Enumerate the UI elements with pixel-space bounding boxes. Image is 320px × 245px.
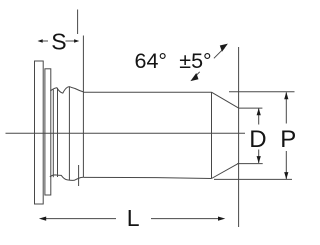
flange back plate: [45, 69, 51, 195]
top chamfer: [212, 92, 239, 108]
arrowhead L right: [218, 217, 225, 221]
dimension D line: [258, 109, 260, 164]
dimension L line: [45, 218, 220, 220]
knurl line 2: [57, 88, 59, 177]
knurl line 3: [68, 87, 70, 180]
D top extension: [239, 107, 263, 109]
dimension P line: [285, 92, 287, 179]
arrowhead P down: [284, 172, 288, 179]
arrowhead angle upper: [220, 44, 228, 52]
center line: [6, 132, 246, 134]
P top extension: [229, 91, 295, 93]
P bottom extension: [214, 178, 292, 180]
arrowhead P up: [284, 92, 288, 99]
body top line: [83, 91, 211, 93]
knurl line 1: [52, 90, 54, 178]
svg-text:L: L: [127, 205, 140, 231]
S extension line: [77, 10, 79, 35]
arrowhead L left: [39, 217, 46, 221]
svg-text:±5°: ±5°: [179, 49, 211, 73]
svg-text:D: D: [249, 126, 266, 153]
knurl line 4: [82, 36, 84, 178]
arrowhead S right: [74, 39, 79, 43]
flange front plate: [35, 61, 44, 204]
svg-text:64°: 64°: [135, 49, 168, 73]
angle leader line: [196, 48, 225, 76]
svg-text:P: P: [280, 126, 296, 153]
grip tick: [78, 165, 80, 186]
arrowhead D down: [257, 156, 261, 163]
D bottom extension: [237, 163, 263, 165]
arrowhead D up: [257, 108, 261, 115]
arrowhead S left: [38, 39, 43, 43]
dimension S line: [40, 40, 76, 42]
svg-text:S: S: [51, 29, 66, 55]
top break wavy line: [50, 87, 83, 94]
bottom chamfer: [212, 163, 239, 178]
bottom break wavy line: [50, 175, 84, 180]
arrowhead angle lower: [190, 73, 198, 81]
end face extension line: [238, 47, 240, 227]
body bottom line: [84, 177, 212, 178]
chamfer base edge: [211, 92, 213, 178]
